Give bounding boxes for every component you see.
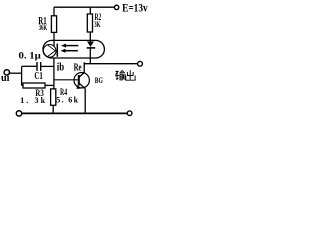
capacitor C1 <box>37 62 41 71</box>
terminal E supply <box>114 5 118 9</box>
wire R4 bottom lead <box>52 105 54 113</box>
wire R1 bottom lead to photodiode <box>53 32 55 46</box>
photodiode envelope circle <box>43 45 56 58</box>
svg-text:ui: ui <box>1 73 10 84</box>
wire ground rail <box>22 112 127 114</box>
wire C1 right lead to node ib <box>41 65 54 67</box>
light arrow lower head <box>61 49 66 53</box>
optocoupler envelope <box>43 40 104 58</box>
wire R2 top lead <box>89 7 91 14</box>
light arrow lower <box>64 50 78 52</box>
svg-text:E=13v: E=13v <box>122 1 148 15</box>
resistor R4 <box>51 89 56 105</box>
terminal ui input <box>4 70 9 75</box>
terminal ground right <box>127 111 132 116</box>
wire collector/output node <box>84 63 138 65</box>
svg-text:0. 1µ: 0. 1µ <box>19 50 42 60</box>
wire input junction vertical <box>21 66 23 85</box>
wire base lead ib <box>54 79 78 81</box>
wire R1 top lead <box>53 7 55 16</box>
wire R2 bottom lead to LED <box>89 32 91 42</box>
wire R3 left lead <box>22 84 23 86</box>
svg-text:3K: 3K <box>94 19 100 29</box>
transistor BG emitter arrow <box>77 85 82 89</box>
wire emitter vertical <box>84 89 86 114</box>
transistor BG envelope <box>74 73 89 88</box>
wire C1 left lead <box>22 65 37 67</box>
svg-text:C1: C1 <box>34 71 42 82</box>
wire ui lead <box>10 72 22 74</box>
resistor R3 <box>23 83 45 88</box>
wire collector vertical <box>79 62 84 77</box>
LED D2 <box>87 42 96 48</box>
wire photodiode bottom vertical <box>53 58 55 89</box>
wire R3 right lead <box>45 84 54 86</box>
transistor BG emitter <box>79 83 85 88</box>
wire LED bottom to node <box>89 49 91 64</box>
wire top rail <box>54 6 114 8</box>
light arrow upper <box>65 45 79 47</box>
svg-text:BG: BG <box>95 76 103 85</box>
resistor R1 <box>51 16 56 33</box>
svg-text:ib: ib <box>57 60 65 74</box>
terminal ground left <box>16 111 21 116</box>
label output char shu 输 <box>115 70 125 80</box>
label output char chu 出 <box>126 70 135 80</box>
terminal output top <box>138 61 143 66</box>
svg-text:Re: Re <box>74 63 82 74</box>
svg-text:36K: 36K <box>39 23 48 32</box>
light arrow upper head <box>61 44 66 48</box>
transistor BG base bar <box>78 75 80 86</box>
resistor R2 <box>87 14 92 32</box>
svg-text:5. 6k: 5. 6k <box>56 96 78 105</box>
photodiode D1 <box>47 44 57 57</box>
